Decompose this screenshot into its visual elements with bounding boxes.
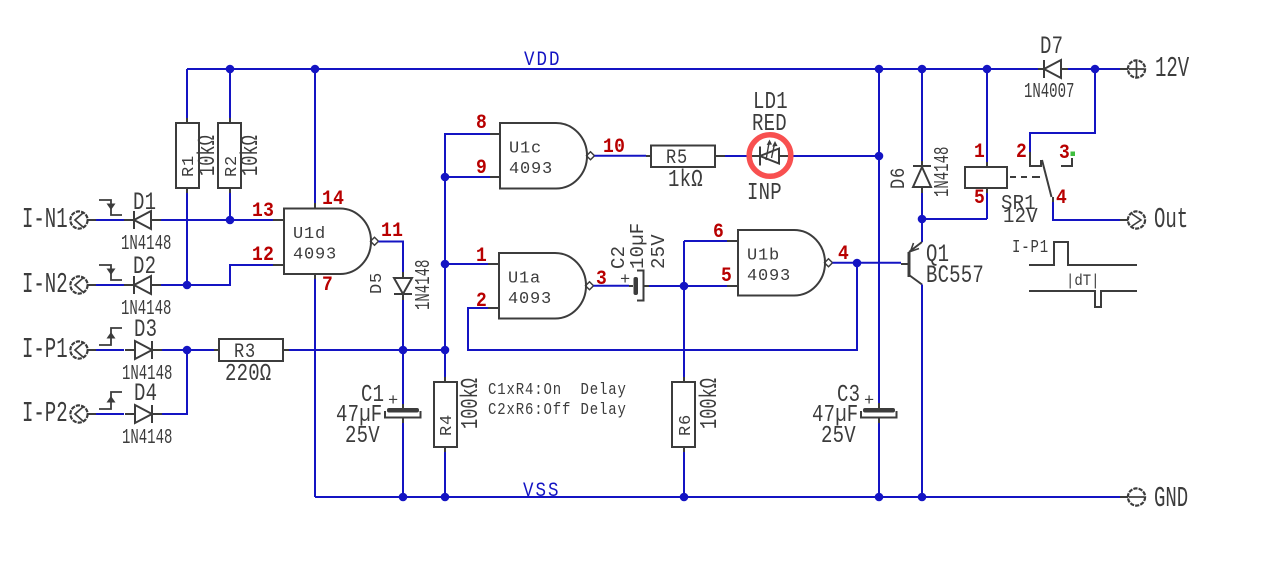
svg-text:1: 1: [974, 140, 985, 163]
svg-text:D1: D1: [133, 189, 156, 217]
power connector 12V: [1120, 54, 1190, 86]
connector I-P2: [22, 399, 96, 431]
wire R2 bottom to D1 node: [229, 192, 231, 220]
junction LD1 / C3 rail: [875, 152, 884, 161]
wire D1 to U1d pin 13: [161, 219, 273, 221]
wire U1d pin 14 to VDD: [314, 69, 316, 203]
gate U1d input pin stubs: [273, 220, 284, 265]
svg-text:R6: R6: [677, 414, 696, 436]
svg-text:C2xR6:Off Delay: C2xR6:Off Delay: [488, 400, 627, 420]
capacitor C2 10µF 25V: [608, 223, 670, 301]
wire I-N2 to D2: [96, 284, 124, 286]
wire R3 to node A: [289, 349, 445, 351]
wire feedback to U1a pin 2: [468, 263, 857, 350]
resistor R5 1kΩ: [646, 146, 720, 194]
svg-text:U1a: U1a: [508, 269, 541, 288]
junction D6/Q1/relay pin5: [918, 215, 927, 224]
junction VDD/relay: [983, 65, 992, 74]
wire relay pin 4 to Out: [1053, 202, 1120, 220]
svg-text:9: 9: [476, 156, 487, 179]
diode D7 1N4007: [1024, 33, 1074, 104]
ERC marker: [1071, 152, 1076, 157]
svg-text:12: 12: [252, 243, 274, 266]
connector I-N1: [22, 205, 96, 237]
wire C1 to VSS: [402, 423, 404, 497]
svg-text:R3: R3: [234, 340, 256, 364]
svg-text:VDD: VDD: [524, 48, 561, 71]
svg-text:D7: D7: [1040, 33, 1063, 61]
wire node A up to U1c pin 8: [445, 134, 490, 350]
junction D2/R1: [183, 281, 192, 290]
wire R1 top lead: [186, 69, 188, 119]
gate U1c input pin stubs: [490, 134, 500, 177]
wire R1 bottom to D2 node: [186, 192, 188, 285]
svg-text:I-P1: I-P1: [22, 335, 68, 367]
junction pin14/VDD: [311, 65, 320, 74]
resistor R6 100kΩ: [672, 377, 724, 452]
ground connector GND: [1120, 484, 1188, 516]
wire U1c output to R5: [595, 155, 647, 157]
resistor R1: [176, 118, 222, 193]
svg-text:4093: 4093: [293, 245, 337, 264]
rising edge symbol: [99, 328, 122, 345]
svg-text:D4: D4: [134, 380, 157, 408]
gate U1d 4093: [284, 209, 379, 275]
svg-text:U1b: U1b: [747, 246, 780, 265]
junction C1/VSS: [399, 493, 408, 502]
svg-text:5: 5: [974, 186, 985, 209]
diode D1 1N4148: [121, 189, 171, 256]
svg-text:1N4148: 1N4148: [122, 427, 172, 451]
wire Q1 collector to VSS: [921, 285, 923, 498]
svg-text:D6: D6: [887, 167, 911, 189]
svg-text:R4: R4: [438, 414, 457, 436]
gate U1c 4093: [500, 123, 595, 189]
wire U1c pin 9 tee: [445, 176, 490, 178]
svg-text:1N4148: 1N4148: [932, 147, 956, 197]
svg-text:1N4007: 1N4007: [1024, 81, 1074, 105]
wire C2 to U1b pin 5 node: [649, 285, 727, 287]
wire R2 top lead: [229, 69, 231, 119]
wire D6 to emitter node: [921, 193, 923, 219]
svg-text:GND: GND: [1154, 484, 1188, 516]
svg-text:12V: 12V: [1155, 54, 1190, 86]
svg-text:C1xR4:On Delay: C1xR4:On Delay: [488, 380, 627, 400]
wire U1d output pin 11 to D5: [379, 242, 404, 273]
capacitor C3 47µF 25V: [812, 382, 897, 450]
junction D3/D4: [183, 346, 192, 355]
LED LD1 RED: [747, 89, 791, 207]
svg-text:R5: R5: [666, 146, 688, 170]
falling edge symbol: [99, 200, 122, 215]
wire U1a output to C2: [594, 285, 630, 287]
diode D5 1N4148: [368, 260, 436, 310]
svg-text:100kΩ: 100kΩ: [459, 378, 485, 429]
svg-text:12V: 12V: [1003, 204, 1038, 228]
relay SR1 switch contacts: [1030, 152, 1072, 202]
gate U1a 4093: [499, 253, 594, 319]
gate U1a input pin stubs: [488, 264, 499, 308]
svg-text:220Ω: 220Ω: [225, 361, 271, 388]
svg-text:13: 13: [252, 199, 274, 222]
junction C2/pin5/R6: [680, 282, 689, 291]
gate U1b input pin stubs: [727, 241, 738, 286]
svg-text:U1c: U1c: [509, 139, 542, 158]
timing diagram upper waveform: [1029, 242, 1137, 265]
junction D5/C1 node A: [399, 346, 408, 355]
resistor R3 220Ω: [214, 339, 289, 388]
svg-text:6: 6: [713, 220, 724, 243]
svg-text:I-N1: I-N1: [22, 205, 68, 237]
wire LD1 to VDD/C3 rail: [790, 155, 879, 157]
wire U1d pin 7 to VSS: [314, 274, 316, 279]
svg-text:U1d: U1d: [293, 225, 326, 244]
wire R4 to VSS: [444, 452, 446, 497]
junction pin4 / feedback: [853, 259, 862, 268]
connector I-P1: [22, 335, 96, 367]
wire D5 to node A: [402, 300, 404, 350]
junction R4/VSS: [441, 493, 450, 502]
junction VDD/D6: [918, 65, 927, 74]
svg-text:10µF: 10µF: [627, 223, 649, 269]
junction Q1/VSS: [918, 493, 927, 502]
svg-text:1: 1: [476, 244, 487, 267]
svg-text:D2: D2: [133, 253, 156, 281]
svg-text:1kΩ: 1kΩ: [668, 167, 703, 194]
svg-text:4093: 4093: [747, 267, 791, 286]
wire relay pin 5 down: [986, 193, 988, 219]
svg-text:D3: D3: [134, 316, 157, 344]
svg-text:7: 7: [322, 273, 333, 296]
wire I-P2 to D4: [96, 413, 124, 415]
resistor R2: [218, 118, 265, 193]
svg-text:25V: 25V: [821, 423, 856, 450]
junction R6/VSS: [680, 493, 689, 502]
wire U1b pin 6 from node: [684, 241, 727, 286]
rising edge symbol: [99, 392, 122, 409]
svg-text:|dT|: |dT|: [1066, 273, 1100, 290]
svg-text:Out: Out: [1154, 205, 1188, 237]
svg-text:11: 11: [381, 219, 403, 242]
svg-text:I-N2: I-N2: [22, 270, 68, 302]
svg-text:I-P2: I-P2: [22, 399, 68, 431]
svg-text:4093: 4093: [508, 290, 552, 309]
wire D3 to R3: [162, 349, 214, 351]
svg-text:14: 14: [322, 187, 344, 210]
junction pin 1: [441, 260, 450, 269]
svg-text:1N4148: 1N4148: [413, 260, 437, 310]
wire C3 to VSS: [878, 423, 880, 497]
relay SR1 coil: [965, 162, 1040, 228]
junction node A / R4: [441, 346, 450, 355]
svg-text:INP: INP: [747, 180, 782, 207]
wire R6 to VSS: [683, 452, 685, 497]
wire VSS rail: [315, 496, 1120, 498]
wire VDD down through C3: [878, 69, 880, 403]
svg-text:4093: 4093: [509, 160, 553, 179]
gate U1b 4093: [738, 230, 833, 296]
wire node down to R6: [683, 286, 685, 378]
junction R2/VDD: [226, 65, 235, 74]
wire U1a pin 1 tee: [445, 263, 488, 265]
wire 12V node to switch pin 2: [1030, 69, 1095, 152]
wire VDD to D6: [921, 69, 923, 161]
wire I-P1 to D3: [96, 349, 124, 351]
svg-text:25V: 25V: [345, 423, 380, 450]
svg-text:25V: 25V: [648, 234, 670, 269]
svg-text:8: 8: [476, 111, 487, 134]
diode D4 1N4148: [122, 380, 172, 450]
connector I-N2: [22, 270, 96, 302]
svg-text:+: +: [864, 392, 875, 411]
diode D2 1N4148: [121, 253, 171, 321]
svg-text:5: 5: [721, 264, 732, 287]
svg-text:BC557: BC557: [926, 262, 984, 290]
svg-text:3: 3: [596, 267, 607, 290]
junction C3/VSS: [875, 493, 884, 502]
transistor Q1 BC557: [901, 219, 984, 290]
wire D2 to U1d pin 12: [161, 265, 273, 285]
svg-text:100kΩ: 100kΩ: [698, 378, 724, 429]
resistor R4 100kΩ: [434, 350, 485, 452]
svg-text:I-P1: I-P1: [1012, 236, 1049, 257]
wire VDD rail: [187, 68, 1120, 70]
diode D3 1N4148: [122, 316, 172, 386]
timing diagram lower waveform: [1029, 291, 1137, 307]
wire R5 to LD1: [720, 155, 725, 157]
diode D6 1N4148: [887, 147, 955, 197]
junction D7 / 12V node: [1091, 65, 1100, 74]
wire VDD to relay coil pin 1: [986, 69, 988, 162]
wire node to relay pin 5 riser: [922, 218, 987, 220]
junction VDD / C3 rail: [875, 65, 884, 74]
wire U1b output pin 4 to Q1 base: [833, 262, 902, 264]
svg-text:D5: D5: [368, 272, 387, 294]
svg-text:2: 2: [1016, 140, 1027, 163]
capacitor C1 47µF 25V: [336, 350, 421, 450]
falling edge symbol: [99, 265, 122, 280]
junction D1/R2: [226, 216, 235, 225]
svg-text:RED: RED: [752, 111, 787, 138]
svg-text:3: 3: [1059, 141, 1070, 164]
svg-text:10kΩ: 10kΩ: [239, 135, 265, 176]
junction pin 9: [441, 173, 450, 182]
svg-text:+: +: [620, 271, 631, 290]
wire I-N1 to D1: [96, 219, 124, 221]
svg-text:4: 4: [1056, 186, 1067, 209]
svg-text:VSS: VSS: [523, 479, 560, 502]
svg-text:+: +: [388, 392, 399, 411]
wire D4 up to D3 node: [162, 350, 187, 414]
output connector Out: [1120, 205, 1188, 237]
